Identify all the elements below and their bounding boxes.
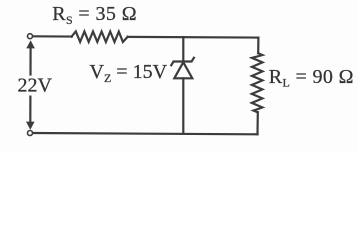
svg-text:RS = 35 Ω: RS = 35 Ω xyxy=(52,3,137,27)
wire arrow shaft bottom xyxy=(29,97,31,123)
terminal circle bottom xyxy=(28,131,33,136)
resistor R_L xyxy=(252,53,263,112)
wire top rail right segment xyxy=(128,36,259,39)
wire middle branch top xyxy=(182,37,184,61)
svg-text:22V: 22V xyxy=(18,74,53,96)
svg-text:VZ = 15V: VZ = 15V xyxy=(90,61,168,85)
arrowhead down xyxy=(26,122,35,130)
wire bottom rail xyxy=(33,133,258,134)
terminal circle top xyxy=(28,34,33,39)
zener diode VZ cathode bar xyxy=(171,58,194,66)
wire arrow shaft top xyxy=(29,48,31,75)
wire middle branch bottom xyxy=(182,78,184,133)
zener diode VZ triangle xyxy=(174,62,192,78)
arrowhead up xyxy=(26,40,35,48)
wire right column top xyxy=(257,38,259,54)
resistor R_S xyxy=(72,31,128,42)
wire top rail left segment xyxy=(33,35,72,37)
svg-text:RL = 90 Ω: RL = 90 Ω xyxy=(269,66,354,90)
wire right column bottom xyxy=(256,112,258,134)
